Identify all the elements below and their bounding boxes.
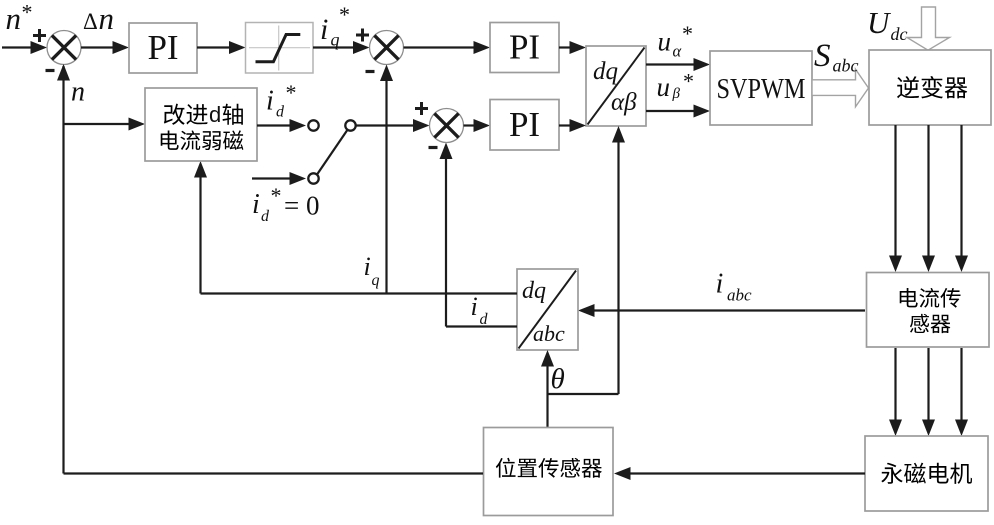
svg-text:i: i [266,86,274,117]
svg-text:Δ: Δ [83,9,98,34]
svg-text:dq: dq [593,58,618,85]
svg-text:β: β [672,86,681,102]
svg-text:i: i [252,189,260,220]
svg-text:i: i [320,13,328,46]
svg-text:d: d [209,102,221,127]
svg-text:*: * [22,0,33,25]
svg-text:q: q [331,30,340,50]
svg-text:d: d [261,208,270,225]
svg-text:*: * [683,69,694,94]
svg-text:αβ: αβ [611,89,637,116]
svg-text:d: d [480,311,489,328]
svg-text:SVPWM: SVPWM [717,73,806,105]
svg-text:θ: θ [551,363,565,395]
svg-text:dc: dc [891,24,908,44]
svg-text:= 0: = 0 [284,191,319,221]
svg-text:S: S [814,38,831,74]
svg-text:*: * [339,2,350,27]
svg-text:U: U [867,5,892,40]
svg-text:d: d [276,104,285,121]
svg-text:i: i [716,269,724,300]
svg-text:n: n [99,1,115,36]
svg-text:n: n [6,1,22,36]
svg-text:*: * [271,183,282,208]
svg-text:*: * [682,21,693,46]
svg-text:PI: PI [509,105,540,144]
svg-text:q: q [372,272,380,289]
svg-text:n: n [71,77,85,108]
svg-text:abc: abc [727,286,752,305]
svg-text:dq: dq [522,278,546,304]
svg-text:u: u [658,27,672,57]
svg-text:i: i [471,292,478,321]
svg-text:PI: PI [147,28,178,67]
svg-text:i: i [364,252,371,281]
svg-text:abc: abc [533,321,565,346]
svg-text:PI: PI [509,28,540,67]
svg-text:*: * [286,80,297,105]
svg-text:abc: abc [833,56,859,76]
svg-text:u: u [657,72,671,102]
svg-text:α: α [673,42,682,61]
